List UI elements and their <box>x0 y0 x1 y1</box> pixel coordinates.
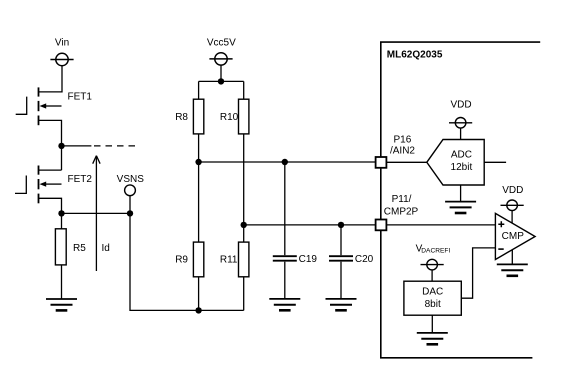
svg-text:VSNS: VSNS <box>117 174 145 185</box>
ground below ADC <box>445 202 476 213</box>
ground below C19 <box>269 299 300 310</box>
wire CMP to ground <box>511 250 513 265</box>
wire pin P11 to CMP plus input <box>386 224 495 226</box>
svg-text:P11/: P11/ <box>392 194 412 205</box>
wire Vcc top rung <box>199 80 244 82</box>
ADC 12bit block <box>427 140 484 186</box>
resistor R10 <box>220 81 249 225</box>
node junction C20 on CMP2P net <box>338 222 344 228</box>
pin P11/CMP2P label <box>384 194 419 217</box>
capacitor C19 <box>273 162 318 299</box>
power terminal VDD (CMP) <box>500 185 523 223</box>
dashed stub wire from node <box>62 145 137 147</box>
node junction C19 on AIN2 net <box>282 159 288 165</box>
node junction VSNS <box>127 210 133 216</box>
resistor R8 <box>175 81 204 162</box>
resistor R5 <box>55 213 86 299</box>
node junction R8/R9 on AIN2 net <box>195 159 201 165</box>
IC box ML62Q2035 <box>381 42 540 358</box>
node junction FET1/FET2 <box>58 143 64 149</box>
node junction R9 bottom rail <box>195 307 201 313</box>
wire Vin to FET1 drain <box>39 66 63 92</box>
svg-text:R8: R8 <box>175 112 188 123</box>
node junction FET2 source / R5 <box>58 210 64 216</box>
svg-text:P16: P16 <box>394 134 412 145</box>
node junction R10/R11 on CMP2P net <box>241 222 247 228</box>
svg-text:C20: C20 <box>355 254 374 265</box>
transistor FET2 <box>15 146 92 214</box>
resistor R11 <box>220 225 249 311</box>
svg-text:R11: R11 <box>220 254 238 265</box>
svg-text:VDD: VDD <box>450 100 471 111</box>
svg-text:Vin: Vin <box>55 38 69 49</box>
svg-text:8bit: 8bit <box>425 299 441 310</box>
ground below DAC <box>417 333 448 344</box>
svg-text:FET2: FET2 <box>68 174 93 185</box>
ADC output stub <box>484 161 506 163</box>
power terminal VDD (ADC) <box>449 100 472 140</box>
svg-text:R10: R10 <box>220 112 239 123</box>
pin square P11 <box>376 220 387 231</box>
svg-text:CMP: CMP <box>502 231 525 242</box>
comparator CMP <box>495 213 535 259</box>
svg-text:VDD: VDD <box>502 185 523 196</box>
svg-text:ML62Q2035: ML62Q2035 <box>387 49 443 60</box>
svg-text:ADC: ADC <box>451 150 472 161</box>
net CMP2P horizontal wire <box>244 224 375 226</box>
wire source node to VSNS drop <box>62 212 131 214</box>
svg-text:Vcc5V: Vcc5V <box>207 38 236 49</box>
wire pin P16 to ADC input <box>386 161 426 163</box>
svg-text:DAC: DAC <box>422 286 443 297</box>
wire VSNS node down to bottom rail <box>130 213 244 310</box>
power terminal Vcc5V <box>207 38 236 82</box>
svg-text:R9: R9 <box>175 254 188 265</box>
svg-text:R5: R5 <box>73 243 86 254</box>
svg-text:FET1: FET1 <box>68 92 93 103</box>
resistor R9 <box>175 162 204 310</box>
node junction Vcc rail <box>218 78 224 84</box>
net AIN2 horizontal wire <box>199 161 375 163</box>
svg-text:12bit: 12bit <box>451 162 473 173</box>
power terminal Vin <box>50 38 73 66</box>
pin square P16 <box>376 157 387 168</box>
svg-text:Id: Id <box>102 243 110 254</box>
ground below R5 <box>46 299 77 310</box>
svg-text:DACREFI: DACREFI <box>421 247 450 254</box>
current arrow Id <box>93 156 110 271</box>
DAC 8bit block <box>404 281 461 315</box>
ground below C20 <box>326 299 357 310</box>
pin P16/AIN2 label <box>390 134 415 156</box>
ground below CMP <box>497 264 528 275</box>
transistor FET1 <box>16 87 93 145</box>
power terminal VDACREFI <box>416 243 451 281</box>
wire DAC to ground <box>431 315 433 333</box>
svg-text:CMP2P: CMP2P <box>384 207 419 218</box>
svg-text:C19: C19 <box>299 254 318 265</box>
wire DAC output to CMP minus input <box>461 248 495 298</box>
svg-text:/AIN2: /AIN2 <box>390 146 415 157</box>
terminal VSNS <box>117 174 145 213</box>
capacitor C20 <box>329 225 374 299</box>
wire ADC to ground <box>460 185 462 202</box>
